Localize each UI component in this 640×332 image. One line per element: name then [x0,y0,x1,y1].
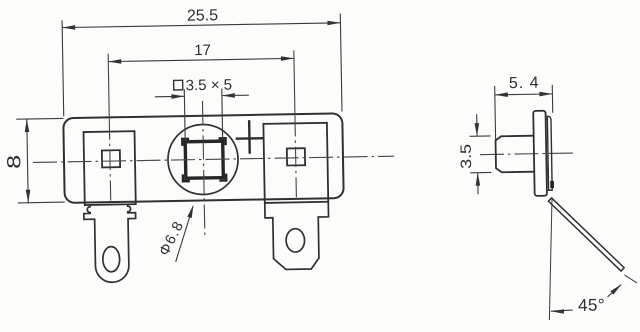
left tab vertical center line (lower dash-dot) [109,120,110,205]
dim 3.5x5 arrows (outside, pointing inward) [155,95,184,98]
dim 25.5 extension lines [62,20,64,116]
dim 3.5 right arrows (outside, pointing inward) [476,114,478,135]
svg-text:3.5 × 5: 3.5 × 5 [186,76,233,94]
dim 3.5x5 extension lines [183,89,186,140]
dim 8 extension lines [16,117,63,120]
right tab small square [287,148,305,165]
side view back plate (terminal strip, rear) [547,116,552,190]
right tab vertical center line (upper solid part) [294,50,295,116]
horizontal center line, left view [33,156,394,162]
dim 3.5x5 square symbol [174,80,183,90]
left terminal oval hole [103,246,120,271]
main body outline [63,113,343,203]
left terminal (crimp lug with oval hole) [84,204,137,283]
horizontal center line, right view [480,153,576,155]
45 deg strip-edge extension line [624,275,637,284]
rivet/attachment thick bar on back plate [550,181,554,188]
dim 25.5 dimension line with arrows [62,23,340,28]
left tab vertical center line (upper solid part) [108,54,109,120]
45 deg right arrow [607,285,621,297]
svg-text:17: 17 [194,42,211,59]
right terminal (tab lug with round hole) [265,202,330,270]
plus / rivet mark right of circle [248,120,251,154]
left mounting tab [84,131,136,205]
side view boss/shaft with chamfers [495,136,534,173]
vertical center line through square hole [202,101,204,238]
dim 5.4 dimension line with arrows [495,94,553,95]
dim 5.4 extension lines [494,86,497,140]
svg-text:3.5: 3.5 [458,144,475,169]
dim 3.5 right extension lines [470,135,491,137]
left tab small square [102,150,120,167]
svg-text:5. 4: 5. 4 [509,75,540,93]
bent terminal strip at 45 degrees [548,197,624,273]
svg-text:25.5: 25.5 [187,7,219,25]
right terminal round hole [286,229,305,253]
45 deg left arrow [551,310,573,311]
central square hole 3.5x5 (thick) [185,141,223,178]
central circle (phi 6.8 boss) [167,124,238,195]
phi 6.8 leader line with arrow [175,206,194,262]
square hole corner relief ticks [181,138,189,141]
45 deg vertical extension line [547,197,554,320]
side view flange plate [533,111,547,196]
svg-text:8: 8 [4,155,25,169]
dim 8 dimension line with arrows [27,119,28,203]
right tab vertical center line (lower dash-dot) [295,116,297,202]
right mounting tab [263,123,328,203]
dim 17 dimension line with arrows [108,58,294,61]
svg-text:45°: 45° [578,295,606,314]
